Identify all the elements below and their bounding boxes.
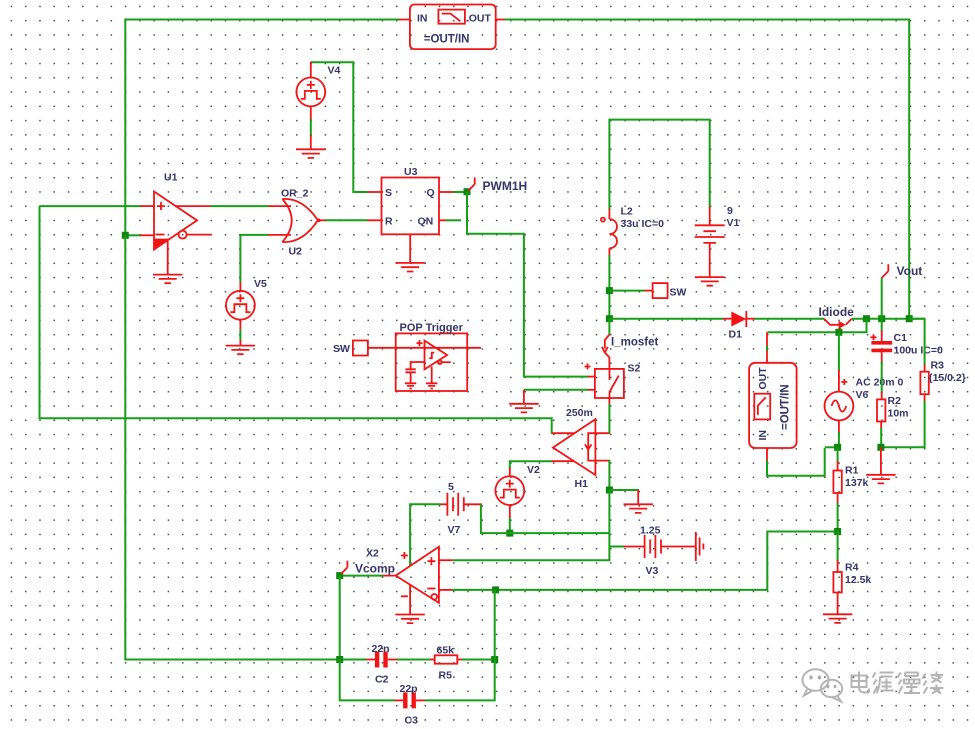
resistor R3 (881, 372, 929, 448)
node compensation left junction (336, 656, 343, 663)
svg-text:V4: V4 (328, 65, 341, 77)
ground below V5 (226, 346, 255, 355)
wire V1 top rail (609, 120, 709, 210)
probe Vcomp (341, 561, 395, 576)
battery V1 (695, 207, 725, 277)
wire V5 to OR lower input (240, 235, 291, 283)
svg-text:H1: H1 (575, 478, 589, 490)
wire U1 output to OR gate (176, 205, 291, 207)
svg-text:65k: 65k (437, 645, 455, 657)
svg-text:33u IC=0: 33u IC=0 (621, 218, 665, 230)
svg-text:C2: C2 (375, 674, 389, 686)
bode probe box (rotated) (749, 363, 797, 448)
node H1 output junction (606, 487, 613, 494)
resistor R1 (833, 447, 841, 531)
wire R5 to right node (462, 659, 495, 661)
terminal SW box (353, 341, 368, 356)
op-amp X2 (396, 547, 439, 603)
probe I_mosfet (602, 319, 659, 370)
svg-text:10m: 10m (888, 408, 909, 420)
node switch-node junction (606, 315, 613, 322)
wire S2 to H1 sense input (608, 398, 610, 434)
svg-text:R1: R1 (845, 465, 859, 477)
svg-text:C1: C1 (894, 332, 908, 344)
svg-text:Q: Q (427, 187, 435, 199)
wire right node up to X2 minus (494, 590, 496, 660)
resistor R5 (430, 655, 463, 663)
switch S2 (585, 364, 624, 399)
svg-text:U1: U1 (164, 172, 178, 184)
ground below V1 (695, 277, 724, 286)
watermark text dianyuan mantan (852, 672, 944, 694)
probe Idiode current arrow (819, 305, 855, 332)
svg-text:R3: R3 (931, 360, 945, 372)
wire V4 to U3 S input (311, 62, 382, 192)
block POP Trigger (396, 333, 468, 391)
svg-text:100u IC=0: 100u IC=0 (894, 345, 943, 357)
node SW branch junction (606, 287, 613, 294)
svg-text:OR_2: OR_2 (281, 188, 309, 200)
ground on S2 lower control (509, 390, 595, 413)
svg-text:POP Trigger: POP Trigger (400, 322, 464, 334)
wire U1- node down to compensation row (125, 235, 367, 659)
wire V7 to V2 node and X2 plus rail (410, 504, 609, 566)
wire H1 node down to references (453, 490, 610, 560)
wire H1 sense out to gnd node (608, 460, 610, 490)
node R1 top junction (834, 444, 841, 451)
svg-text:.OUT: .OUT (466, 12, 492, 24)
svg-text:V5: V5 (254, 278, 267, 290)
svg-text:X2: X2 (366, 548, 379, 560)
wire X2 minus input (439, 532, 838, 590)
wire bode IN to R1 node (767, 447, 838, 475)
svg-text:250m: 250m (566, 407, 593, 419)
probe PWM1H (468, 177, 527, 193)
wire C3 to right node (425, 660, 495, 700)
svg-text:IN: IN (417, 12, 428, 24)
node output ground junction (877, 444, 884, 451)
wire OR output to U3 R input (320, 219, 382, 221)
ground below X2 (395, 585, 424, 623)
node junction U1 minus (122, 232, 129, 239)
svg-text:R: R (385, 216, 393, 228)
svg-text:IN: IN (757, 430, 769, 441)
voltage source V5 (226, 282, 255, 346)
AC source V6 (825, 332, 854, 447)
svg-text:V3: V3 (646, 565, 659, 577)
wire SW to POP trigger (368, 347, 481, 349)
svg-text:R2: R2 (888, 395, 902, 407)
svg-text:QN: QN (418, 216, 434, 228)
wire injection row (767, 319, 867, 363)
bode box U5 (=OUT/IN) (410, 5, 496, 50)
svg-text:Vout: Vout (897, 264, 923, 278)
wire C2 to R5 (397, 659, 431, 661)
svg-text:=OUT/IN: =OUT/IN (424, 33, 470, 45)
wire V2 to H1 lower input (510, 461, 574, 469)
node PWM1H junction (464, 188, 471, 195)
svg-text:SW: SW (670, 287, 687, 299)
wire: feedback to bode box IN (125, 20, 410, 236)
svg-text:I_mosfet: I_mosfet (611, 337, 658, 349)
current sense H1 (553, 419, 610, 475)
svg-text:V1: V1 (727, 217, 740, 229)
ground below U3 (396, 234, 425, 271)
svg-text:{15/0.2}: {15/0.2} (929, 372, 966, 384)
svg-text:137k: 137k (845, 477, 869, 489)
wire U3 Q output (439, 191, 467, 193)
svg-text:U3: U3 (404, 166, 418, 178)
wire U3 QN stub (439, 219, 461, 221)
svg-text:SW: SW (333, 343, 350, 355)
svg-text:S: S (385, 187, 392, 199)
wire D1 to output node (746, 318, 924, 320)
node V2 bottom junction (506, 530, 513, 537)
logo wechat (803, 669, 843, 701)
ground below V4 (296, 149, 325, 158)
wire switch node to D1 (609, 318, 731, 320)
wire X2 output to Vcomp (340, 575, 396, 577)
wire PWM1H to S2 control (467, 192, 595, 377)
node divider junction (834, 528, 841, 535)
svg-text:9: 9 (727, 205, 733, 217)
ground output (866, 447, 895, 483)
wire U1 plus input (40, 205, 155, 207)
node output junctions (863, 315, 870, 322)
terminal SW box right (653, 283, 668, 298)
svg-text:5: 5 (448, 481, 454, 493)
voltage source V4 (296, 62, 325, 150)
resistor R2 (877, 399, 885, 447)
svg-text:S2: S2 (628, 363, 641, 375)
svg-text:22n: 22n (372, 643, 390, 655)
svg-text:Idiode: Idiode (819, 305, 855, 319)
wire: bode box OUT to Vout node (496, 20, 910, 319)
inductor L2 (601, 209, 617, 256)
battery V7 (440, 493, 482, 516)
svg-text:R4: R4 (845, 562, 859, 574)
node Vcomp junction (336, 572, 343, 579)
wire Vcomp down to compensation row (339, 576, 341, 660)
battery V3 (645, 535, 696, 558)
wire U1+ sense line (long) (40, 206, 575, 434)
svg-text:12.5k: 12.5k (845, 574, 871, 586)
wire output right rail to R3 (909, 319, 924, 372)
svg-text:R5: R5 (439, 670, 453, 682)
resistor R4 (833, 532, 841, 615)
capacitor C2 (367, 652, 399, 668)
svg-text:Vcomp: Vcomp (355, 562, 395, 576)
svg-text:=OUT/IN: =OUT/IN (780, 384, 792, 430)
svg-text:V6: V6 (856, 389, 869, 401)
capacitor C1 with ESR (871, 319, 893, 400)
op-amp U1 (154, 192, 212, 250)
svg-text:22p: 22p (400, 683, 418, 695)
wire to SW terminal (609, 290, 645, 292)
svg-text:L2: L2 (621, 206, 633, 218)
svg-text:C3: C3 (405, 715, 419, 727)
wire to V3 (609, 546, 644, 548)
node X2 minus junction (492, 586, 499, 593)
or-gate U2 (282, 199, 320, 242)
svg-text:1.25: 1.25 (640, 525, 661, 537)
wire L2 bottom to switch node (608, 255, 610, 320)
ground sideways at V3 (696, 532, 704, 561)
node compensation right junction (491, 656, 498, 663)
svg-text:OUT: OUT (757, 367, 769, 390)
svg-text:D1: D1 (729, 329, 743, 341)
node V6 top junction (835, 329, 842, 336)
diode D1 (731, 311, 746, 327)
svg-text:V7: V7 (448, 524, 461, 536)
wire X2 plus input (439, 559, 453, 561)
wire C3 branch (340, 660, 396, 701)
svg-text:AC 20m 0: AC 20m 0 (856, 377, 904, 389)
latch U3 (382, 178, 440, 235)
svg-text:PWM1H: PWM1H (483, 179, 528, 193)
svg-text:V2: V2 (527, 464, 540, 476)
capacitor C3 (395, 692, 426, 708)
wire junction to ground (609, 490, 653, 513)
probe Vout (882, 264, 923, 319)
svg-text:U2: U2 (289, 246, 303, 258)
voltage source V2 (495, 468, 524, 533)
ground below U1 (153, 241, 182, 284)
ground below R4 (823, 614, 852, 623)
